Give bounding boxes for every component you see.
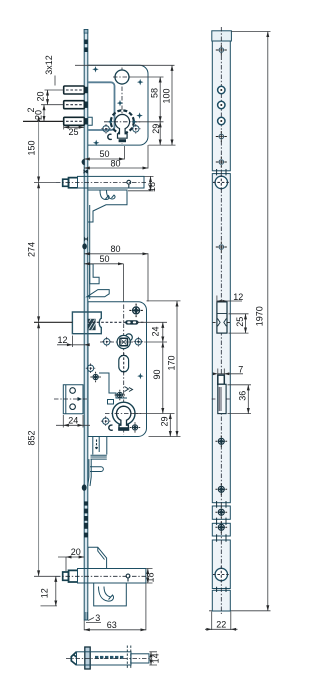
fixing hole C: [215, 506, 227, 518]
side hole right (main case): [134, 337, 144, 347]
top case outline: [88, 65, 148, 145]
svg-text:80: 80: [110, 158, 120, 168]
faceplate segment 1: [212, 41, 230, 171]
cylinder centerline (main case): [105, 413, 143, 415]
bottom latch rod: [78, 569, 146, 584]
svg-text:50: 50: [99, 149, 109, 159]
dim 63 line: [84, 629, 146, 631]
c-clip mark: [108, 134, 112, 139]
fixing star bottom-right (main case): [130, 422, 140, 432]
screw hole 3: [218, 117, 225, 124]
bolt B3: [64, 117, 85, 125]
svg-text:25: 25: [235, 317, 245, 327]
ext key slot right: [137, 321, 167, 323]
svg-text:20: 20: [71, 547, 81, 557]
dim 29 line (top case): [159, 122, 161, 145]
faceplate segment 4: [212, 523, 230, 536]
deadbolt cutout: [213, 302, 230, 333]
dim 22 ext: [212, 612, 231, 631]
fixing star top-left: [92, 66, 98, 72]
main case centerline: [123, 305, 125, 435]
dim 90 line: [162, 342, 164, 414]
top case inner body edge: [88, 82, 115, 130]
latch spring hook 2: [107, 191, 116, 200]
faceplate bottom tip mark: [85, 612, 87, 620]
euro cylinder profile (main case): [116, 406, 130, 429]
dim 29 line (main case): [169, 414, 171, 437]
bottom spring box: [94, 583, 127, 606]
dim 12 deadbolt ext: [71, 336, 73, 348]
latch bolt mid: [69, 178, 78, 188]
dim 12 bottom line: [55, 576, 57, 606]
dim 25 bolts line: [64, 126, 84, 128]
fixing hole D: [215, 521, 227, 533]
ext line 1970 bottom: [209, 610, 271, 612]
latch bolt body: [78, 176, 145, 188]
svg-text:58: 58: [150, 88, 160, 98]
dim 100 line: [171, 65, 173, 145]
bottom latch nose: [63, 572, 69, 580]
svg-text:80: 80: [110, 244, 120, 254]
bottom bracket above latch: [88, 547, 107, 568]
dim 14 ext: [149, 652, 157, 665]
strip x tick: [83, 170, 87, 173]
dim 50 line (top case): [84, 158, 124, 160]
faceplate segment 3: [212, 506, 230, 519]
ext cylinder right (main case): [132, 413, 175, 415]
bottom latch centerline: [56, 575, 148, 577]
ext case bottom right (main case): [149, 436, 181, 438]
dim 12 cutout ext: [216, 296, 218, 304]
detail view body: [77, 652, 132, 665]
svg-text:7: 7: [238, 364, 243, 374]
dim 3x12 leader: [54, 76, 56, 86]
dim 20 bottom ext: [58, 557, 66, 571]
aux cutout lower: [212, 384, 230, 413]
dim 12 deadbolt arrows: [67, 343, 90, 346]
svg-text:20: 20: [36, 91, 46, 101]
dim chain line 150-274-852: [38, 121, 40, 576]
ext case bottom right (top case): [149, 144, 176, 146]
fixing hole B: [215, 483, 227, 495]
dim 7 line: [218, 373, 243, 375]
bolt B1: [64, 86, 85, 94]
dim 1970 line: [267, 32, 269, 611]
fixing star mid: [117, 100, 123, 106]
dim 58 line: [159, 77, 161, 122]
gear box pin with arrow: [95, 440, 98, 450]
svg-text:852: 852: [27, 430, 37, 445]
bolt B1 plate cut: [84, 87, 88, 93]
rail rivet marks: [84, 501, 88, 505]
dim 14 line: [150, 652, 152, 665]
ext cylinder right (top case): [136, 121, 164, 123]
hole mark 3: [216, 242, 227, 253]
lower gear box: [93, 437, 107, 455]
gear box base plate: [91, 455, 107, 459]
rod end blob: [82, 484, 87, 490]
ext follower right (top case): [130, 76, 164, 78]
lower rod: [88, 459, 92, 486]
svg-text:29: 29: [151, 124, 161, 134]
latch guide block: [88, 190, 127, 222]
dim 170 line: [176, 301, 178, 437]
dim 24 line (main case): [162, 322, 164, 342]
strip top rivet marks: [84, 40, 87, 45]
screw hole 2: [218, 101, 225, 108]
ramp block: [87, 290, 109, 297]
detail view plate section: [85, 647, 90, 669]
deadbolt centerline: [88, 321, 144, 323]
bracket screw hole lower: [70, 404, 76, 410]
ext case top right (main case): [147, 300, 181, 302]
svg-text:3x12: 3x12: [44, 55, 54, 75]
follower hole (top case): [113, 70, 131, 84]
faceplate segment 2: [212, 174, 230, 503]
break ticks: [217, 169, 226, 592]
chain arrows: [37, 115, 40, 576]
screw hole 1: [218, 86, 225, 93]
dim 12 deadbolt line: [57, 344, 88, 346]
faceplate strip (side view): [84, 30, 88, 621]
bottom latch anchor pin: [126, 574, 130, 581]
bolt B2: [64, 101, 85, 109]
svg-text:170: 170: [166, 355, 176, 370]
dim 25 cutout ext: [229, 314, 249, 333]
dim 24 bracket ext: [56, 415, 90, 428]
fixing star bottom-left: [93, 140, 99, 146]
dim 20 upper line: [47, 90, 49, 105]
dim 80 line (top case): [84, 167, 148, 169]
cylinder foot pad (main case): [118, 427, 129, 431]
svg-text:50: 50: [99, 254, 109, 264]
rod bracket: [90, 264, 99, 284]
latch spring hook 1: [100, 191, 109, 200]
ext line bolt3 (long): [23, 120, 64, 122]
svg-text:100: 100: [162, 88, 172, 103]
svg-text:12: 12: [57, 335, 67, 345]
dim 80 ext (main case): [147, 253, 149, 301]
strip top cap: [84, 30, 88, 34]
svg-text:3: 3: [95, 613, 100, 623]
small hole: [216, 131, 227, 142]
svg-text:63: 63: [107, 620, 117, 630]
svg-text:150: 150: [27, 140, 37, 155]
dim 80 line (main case): [84, 253, 148, 255]
dim 36 ext: [228, 385, 252, 414]
interior tab: [108, 400, 114, 405]
latch opening (bottom): [213, 566, 230, 582]
dim 25 ext: [63, 125, 65, 129]
svg-text:90: 90: [152, 369, 162, 379]
ext deadbolt center left: [34, 321, 72, 323]
svg-text:12: 12: [233, 292, 243, 302]
fixing star upper-right (main case): [129, 304, 143, 318]
strip rivet D mark: [82, 159, 85, 165]
bolt B2 plate cut: [84, 102, 88, 108]
detail view centerline: [66, 657, 152, 659]
dim 3 leader: [86, 618, 101, 623]
dim 50 ext (top case): [123, 146, 125, 160]
dim 1970 ext top: [231, 31, 270, 33]
dim 7 ext: [218, 369, 225, 376]
interior chevrons: [125, 387, 133, 392]
dim 20 bottom line: [66, 556, 84, 558]
step bracket (main case interior): [99, 373, 127, 398]
side hole left (main case): [102, 337, 112, 347]
bottom latch mid: [69, 570, 78, 582]
fixing hole A: [215, 435, 227, 447]
dim 2+20 lower line: [43, 105, 45, 122]
main case left wall: [87, 302, 89, 437]
dim 36 line: [247, 385, 249, 414]
svg-text:274: 274: [27, 242, 37, 257]
dim 22 arrows: [206, 628, 236, 631]
latch bolt nose: [63, 179, 69, 186]
collar set-screw right: [131, 119, 137, 125]
svg-text:18: 18: [146, 572, 156, 582]
collar set-screw left: [107, 119, 113, 125]
fixing star right-lower: [136, 112, 142, 118]
dim 12 bottom ext: [41, 605, 58, 607]
dim 50 ext (main case): [122, 264, 124, 302]
euro cylinder profile (top case): [115, 114, 130, 138]
bracket arrow mark: [78, 397, 83, 401]
dim 18 latch line: [150, 176, 152, 190]
svg-text:18: 18: [147, 182, 157, 192]
ext latch center left: [34, 181, 56, 183]
fixing star right-upper: [137, 79, 143, 85]
euro cylinder (top case) collar ring: [111, 110, 134, 133]
bolt B3 plate cut: [84, 118, 88, 124]
aux cutout upper slot: [218, 375, 225, 384]
strip rivet blob: [82, 243, 87, 249]
bottom spring curl: [99, 587, 114, 602]
deadbolt: [72, 312, 101, 334]
follower centerline: [100, 341, 146, 343]
faceplate front view top cap: [212, 31, 232, 41]
detail view nose: [71, 652, 76, 665]
side screw hole left (top case): [101, 124, 111, 134]
detail view rod: [131, 654, 149, 663]
hole mark top: [216, 45, 227, 56]
detail view spring dashes: [95, 656, 123, 659]
aux bolt bracket: [63, 385, 83, 414]
svg-text:22: 22: [216, 620, 226, 630]
faceplate segment 5: [212, 540, 230, 589]
strip weld bowtie: [84, 236, 88, 242]
euro cylinder (main case): [112, 402, 135, 425]
small star right (main case): [137, 373, 143, 379]
dim 22 line: [205, 628, 238, 630]
detail view hidden lines: [127, 646, 131, 670]
cylinder foot pad: [119, 139, 126, 142]
fixing star left (main case): [90, 372, 100, 382]
dim 18 bottom ext: [147, 569, 153, 584]
hole mark 2: [216, 157, 227, 168]
deadbolt stump (hatched): [88, 319, 96, 330]
top case centerline: [121, 68, 123, 145]
side hole left (cylinder): [101, 416, 111, 426]
dim 12 cutout arrows: [217, 300, 227, 303]
faceplate centerline: [220, 27, 222, 614]
svg-text:1970: 1970: [254, 306, 264, 326]
svg-text:36: 36: [238, 391, 248, 401]
main case outline: [88, 302, 147, 437]
oval slot: [119, 353, 129, 374]
dim 25 cutout line: [245, 314, 247, 333]
cylinder centerline (top case): [104, 121, 142, 123]
faceplate bottom cap: [212, 590, 230, 611]
dim 18 bottom line: [147, 569, 149, 584]
dim 7 arrows: [213, 372, 230, 375]
svg-text:14: 14: [151, 653, 161, 663]
dim 50 line (main case): [84, 263, 123, 265]
dim 12 cutout line: [217, 300, 242, 302]
latch anchor pin: [127, 180, 131, 187]
follower square (main case): [117, 334, 132, 349]
guide hole top-left: [86, 363, 96, 373]
ext line case top (top case): [75, 64, 175, 66]
svg-text:12: 12: [40, 588, 50, 598]
bolt B3 tail inside case: [88, 117, 92, 125]
ext bottom latch left: [34, 575, 56, 577]
dim 24 bracket line: [63, 424, 83, 426]
latch centerline: [56, 181, 146, 183]
interior star cluster: [115, 390, 125, 400]
strip weld mark above latch: [84, 170, 88, 173]
side screw hole right (top case): [131, 124, 141, 134]
ext line bolt2: [41, 104, 64, 106]
bracket centerline: [54, 398, 89, 400]
ext line bolt1: [45, 89, 64, 91]
dim 80 ext (top case): [147, 145, 149, 168]
latch opening (top): [213, 174, 230, 190]
svg-text:25: 25: [68, 127, 78, 137]
sash key slot: [125, 320, 138, 324]
svg-text:24: 24: [151, 326, 161, 336]
dim 63 ext: [84, 584, 146, 631]
c-clip mark (main case): [109, 425, 113, 430]
ext follower right (main case): [146, 341, 167, 343]
bracket screw hole upper: [70, 388, 76, 394]
svg-text:24: 24: [68, 416, 78, 426]
connecting rod upper: [89, 205, 91, 299]
dim 18 latch ext: [128, 176, 154, 190]
rod tab: [90, 467, 103, 472]
svg-text:29: 29: [160, 416, 170, 426]
